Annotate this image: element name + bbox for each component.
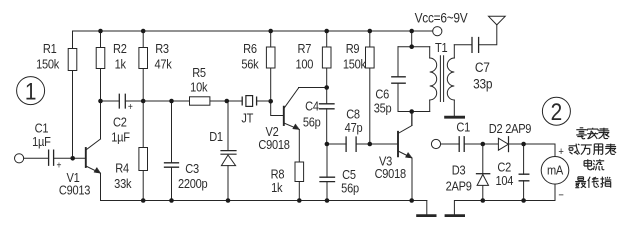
svg-text:JT: JT	[241, 111, 254, 126]
node top rail R7	[324, 29, 329, 34]
resistor R4	[139, 101, 148, 201]
svg-text:56p: 56p	[303, 115, 321, 130]
svg-text:33p: 33p	[473, 76, 492, 92]
transistor V3 C9018	[398, 112, 412, 201]
circle mark 1	[17, 77, 45, 105]
node rail D1	[226, 198, 231, 203]
node mid D1	[225, 99, 230, 104]
node mid R3	[141, 99, 146, 104]
node collector V1	[98, 99, 103, 104]
transformer T1 core	[440, 56, 443, 102]
hanzi hao (毫)	[576, 128, 587, 139]
svg-text:C7: C7	[475, 59, 490, 75]
node det D3 bottom	[481, 198, 486, 203]
capacitor C5 56p	[320, 144, 335, 201]
capacitor C3 2200p	[165, 101, 179, 201]
resistor R2	[96, 31, 105, 101]
capacitor C6 35p	[392, 47, 405, 112]
svg-text:1µF: 1µF	[32, 134, 50, 149]
hanzi an (安)	[587, 128, 598, 139]
wire mid coupling line	[101, 100, 271, 102]
node det C2 top	[521, 142, 526, 147]
svg-text:104: 104	[495, 173, 513, 188]
transistor V1 C9013	[86, 101, 101, 201]
svg-text:56p: 56p	[341, 181, 359, 196]
resistor R9	[366, 31, 375, 144]
svg-text:C3: C3	[185, 161, 199, 176]
svg-text:+: +	[56, 160, 61, 171]
svg-text:150k: 150k	[343, 56, 367, 71]
hanzi wan (万)	[581, 145, 592, 155]
hanzi biao (表)	[599, 128, 610, 139]
node base V1	[70, 156, 75, 161]
wire meter bottom / detector bottom rail	[454, 184, 555, 214]
svg-text:D2 2AP9: D2 2AP9	[489, 121, 532, 136]
svg-text:33k: 33k	[114, 176, 132, 191]
node det D3 top	[481, 142, 486, 147]
svg-text:C1: C1	[456, 120, 470, 135]
chinese annotation block	[569, 128, 617, 188]
svg-text:C6: C6	[375, 87, 389, 102]
svg-text:mA: mA	[547, 163, 564, 178]
svg-text:R6: R6	[243, 41, 257, 56]
resistor R8	[295, 130, 304, 201]
resistor R1	[68, 31, 77, 158]
node det C2 bottom	[521, 198, 526, 203]
svg-text:C9013: C9013	[59, 183, 91, 198]
svg-text:R5: R5	[192, 65, 206, 80]
node tank bottom	[409, 109, 414, 114]
hanzi liu (流)	[593, 159, 604, 170]
ground secondary	[446, 116, 464, 119]
node top rail T1	[409, 29, 414, 34]
transformer T1 primary	[430, 47, 437, 112]
diode D3 2AP9	[477, 144, 490, 201]
svg-text:47k: 47k	[154, 56, 172, 71]
resistor R7	[322, 31, 331, 88]
node rail V3	[409, 198, 414, 203]
terminal Vcc circle	[433, 27, 442, 36]
svg-text:R7: R7	[298, 41, 312, 56]
svg-text:47p: 47p	[345, 120, 363, 135]
wire C8 to V3 base	[370, 143, 398, 145]
svg-text:1µF: 1µF	[111, 130, 129, 145]
ground main	[418, 201, 436, 216]
node rail R4	[141, 198, 146, 203]
meter mA circle	[541, 157, 569, 185]
hanzi yong (用)	[593, 144, 602, 155]
svg-text:56k: 56k	[241, 56, 259, 71]
svg-text:100: 100	[295, 56, 313, 71]
hanzi huo (或)	[569, 144, 580, 155]
terminal detector input circle	[431, 139, 440, 148]
node collector V2	[324, 85, 329, 90]
node top rail R2	[98, 29, 103, 34]
resistor R6	[266, 31, 283, 116]
svg-text:Vcc=6~9V: Vcc=6~9V	[415, 10, 468, 26]
node base V2	[268, 99, 273, 104]
diode D2 2AP9	[498, 137, 508, 152]
svg-text:2200p: 2200p	[178, 176, 208, 191]
svg-text:150k: 150k	[36, 56, 60, 71]
hanzi dang (挡)	[600, 177, 611, 188]
capacitor C2 104	[519, 144, 529, 201]
terminal input circle left	[15, 154, 24, 163]
crystal JT	[242, 96, 256, 107]
capacitor C7 33p	[472, 38, 479, 53]
capacitor C1 (left, 1uF)	[49, 150, 54, 165]
transistor V2 C9018	[284, 88, 300, 130]
svg-text:+: +	[128, 101, 133, 112]
wire input	[24, 157, 49, 159]
svg-text:C9018: C9018	[375, 166, 407, 181]
svg-text:1k: 1k	[271, 180, 283, 195]
svg-text:R4: R4	[115, 161, 129, 176]
svg-text:1k: 1k	[115, 56, 127, 71]
wire bottom rail	[101, 200, 427, 202]
node top rail R3	[141, 29, 146, 34]
node top rail R9	[368, 29, 373, 34]
svg-text:2AP9: 2AP9	[446, 179, 473, 194]
node rail R8	[297, 198, 302, 203]
resistor R5	[190, 97, 210, 105]
wire V2 collector	[299, 87, 327, 89]
node top rail R6	[268, 29, 273, 34]
node mid C3	[169, 99, 174, 104]
capacitor C8 47p horizontal	[327, 137, 370, 151]
svg-text:R2: R2	[113, 41, 127, 56]
hanzi di (低)	[588, 177, 599, 188]
node base V3	[368, 142, 373, 147]
svg-text:R1: R1	[43, 41, 57, 56]
svg-text:R9: R9	[346, 41, 360, 56]
node C4 C8	[325, 142, 330, 147]
wire top rail	[73, 30, 433, 32]
node tank top	[409, 44, 414, 49]
node rail C5	[325, 198, 330, 203]
svg-text:C4: C4	[305, 99, 319, 114]
capacitor C4 56p	[320, 88, 335, 145]
svg-text:−: −	[558, 190, 563, 202]
diode D1 (varactor)	[221, 101, 236, 201]
svg-text:C9018: C9018	[258, 137, 290, 152]
svg-text:R3: R3	[155, 41, 169, 56]
transformer T1 secondary	[447, 45, 454, 116]
circle mark 2	[542, 97, 570, 125]
hanzi zui (最)	[575, 177, 586, 188]
svg-text:+: +	[558, 146, 563, 158]
svg-text:C2: C2	[113, 115, 127, 130]
node rail C3	[169, 198, 174, 203]
svg-text:35p: 35p	[374, 101, 392, 116]
wire detector top	[441, 144, 555, 157]
hanzi biao (表)	[605, 144, 616, 155]
antenna	[489, 16, 506, 25]
svg-text:2: 2	[551, 97, 563, 125]
tank circuit wires	[398, 31, 430, 126]
wire C7 link	[454, 25, 497, 45]
hanzi dian (电)	[584, 159, 592, 170]
wire C1 to base junction	[54, 157, 86, 159]
ground detector	[446, 214, 464, 217]
svg-text:10k: 10k	[190, 80, 208, 95]
svg-text:D1: D1	[209, 129, 223, 144]
svg-text:D3: D3	[452, 163, 466, 178]
svg-text:1: 1	[25, 77, 37, 105]
capacitor C2 (1uF) horizontal	[119, 94, 125, 108]
capacitor C1 (detector)	[459, 137, 464, 152]
resistor R3	[139, 31, 148, 101]
svg-text:T1: T1	[435, 40, 448, 55]
